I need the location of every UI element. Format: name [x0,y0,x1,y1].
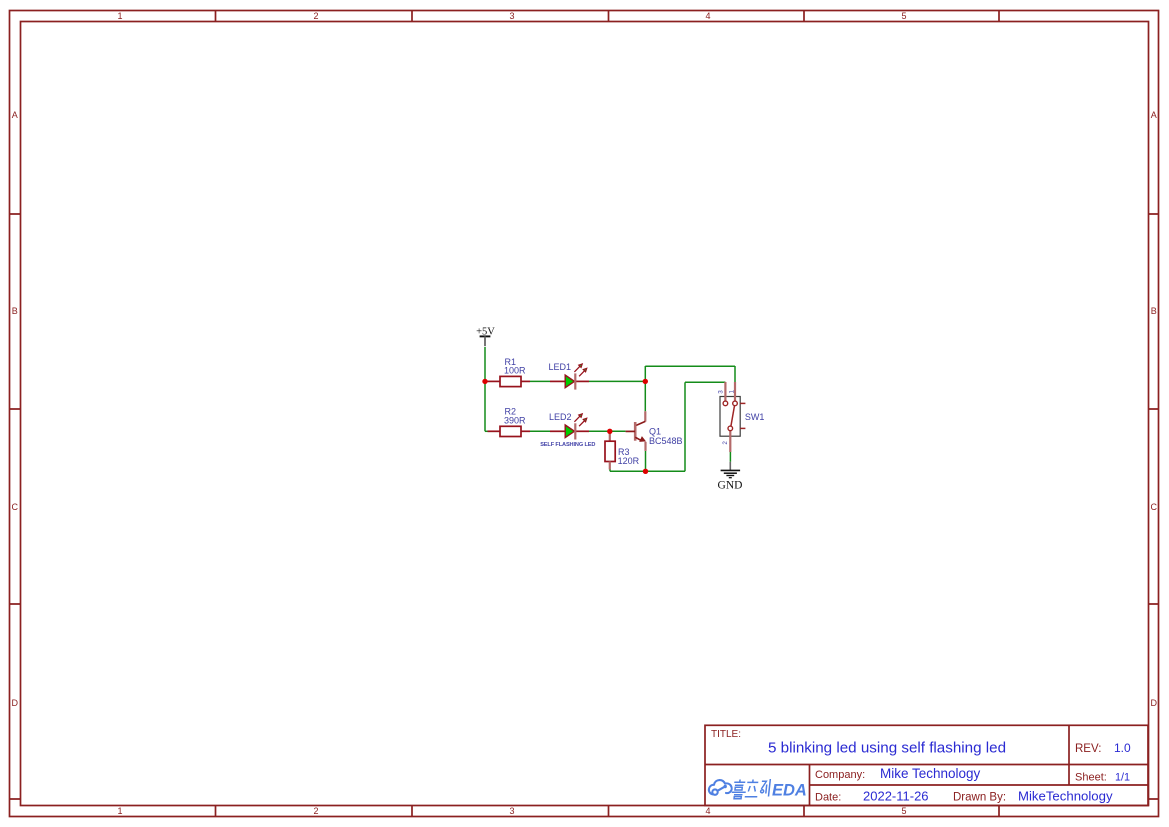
svg-text:2022-11-26: 2022-11-26 [863,789,929,804]
svg-text:Sheet:: Sheet: [1075,772,1107,784]
svg-text:B: B [12,306,18,316]
svg-text:2: 2 [313,11,318,21]
svg-text:390R: 390R [504,415,526,425]
svg-text:3: 3 [717,390,724,394]
svg-text:B: B [1151,306,1157,316]
svg-text:3: 3 [509,11,514,21]
svg-text:1/1: 1/1 [1115,772,1130,784]
svg-text:TITLE:: TITLE: [711,729,741,740]
svg-text:C: C [1151,502,1158,512]
svg-text:Date:: Date: [815,792,841,804]
svg-text:REV:: REV: [1075,743,1101,755]
svg-text:Drawn By:: Drawn By: [953,792,1006,804]
svg-text:BC548B: BC548B [649,436,683,446]
svg-text:EDA: EDA [772,782,807,800]
svg-text:1: 1 [729,390,736,394]
svg-text:5 blinking led using self flas: 5 blinking led using self flashing led [768,740,1006,757]
svg-text:1.0: 1.0 [1114,741,1131,755]
svg-text:A: A [1151,110,1157,120]
svg-text:3: 3 [509,806,514,816]
svg-text:1: 1 [117,11,122,21]
svg-text:LED2: LED2 [549,412,572,422]
svg-text:C: C [12,502,19,512]
svg-text:120R: 120R [618,456,640,466]
svg-text:SW1: SW1 [745,412,765,422]
svg-text:SELF FLASHING LED: SELF FLASHING LED [540,442,595,448]
svg-text:1: 1 [117,806,122,816]
svg-text:4: 4 [705,11,710,21]
svg-text:4: 4 [705,806,710,816]
svg-text:2: 2 [313,806,318,816]
svg-text:Mike Technology: Mike Technology [880,766,981,781]
svg-text:LED1: LED1 [549,362,572,372]
svg-text:D: D [1151,698,1158,708]
svg-text:Company:: Company: [815,769,865,781]
svg-text:GND: GND [718,479,743,491]
svg-text:2: 2 [722,441,729,445]
svg-text:A: A [12,110,18,120]
svg-text:5: 5 [901,11,906,21]
svg-text:5: 5 [901,806,906,816]
svg-text:D: D [12,698,19,708]
svg-text:MikeTechnology: MikeTechnology [1018,789,1113,804]
svg-text:100R: 100R [504,365,526,375]
svg-text:+5V: +5V [476,326,495,337]
